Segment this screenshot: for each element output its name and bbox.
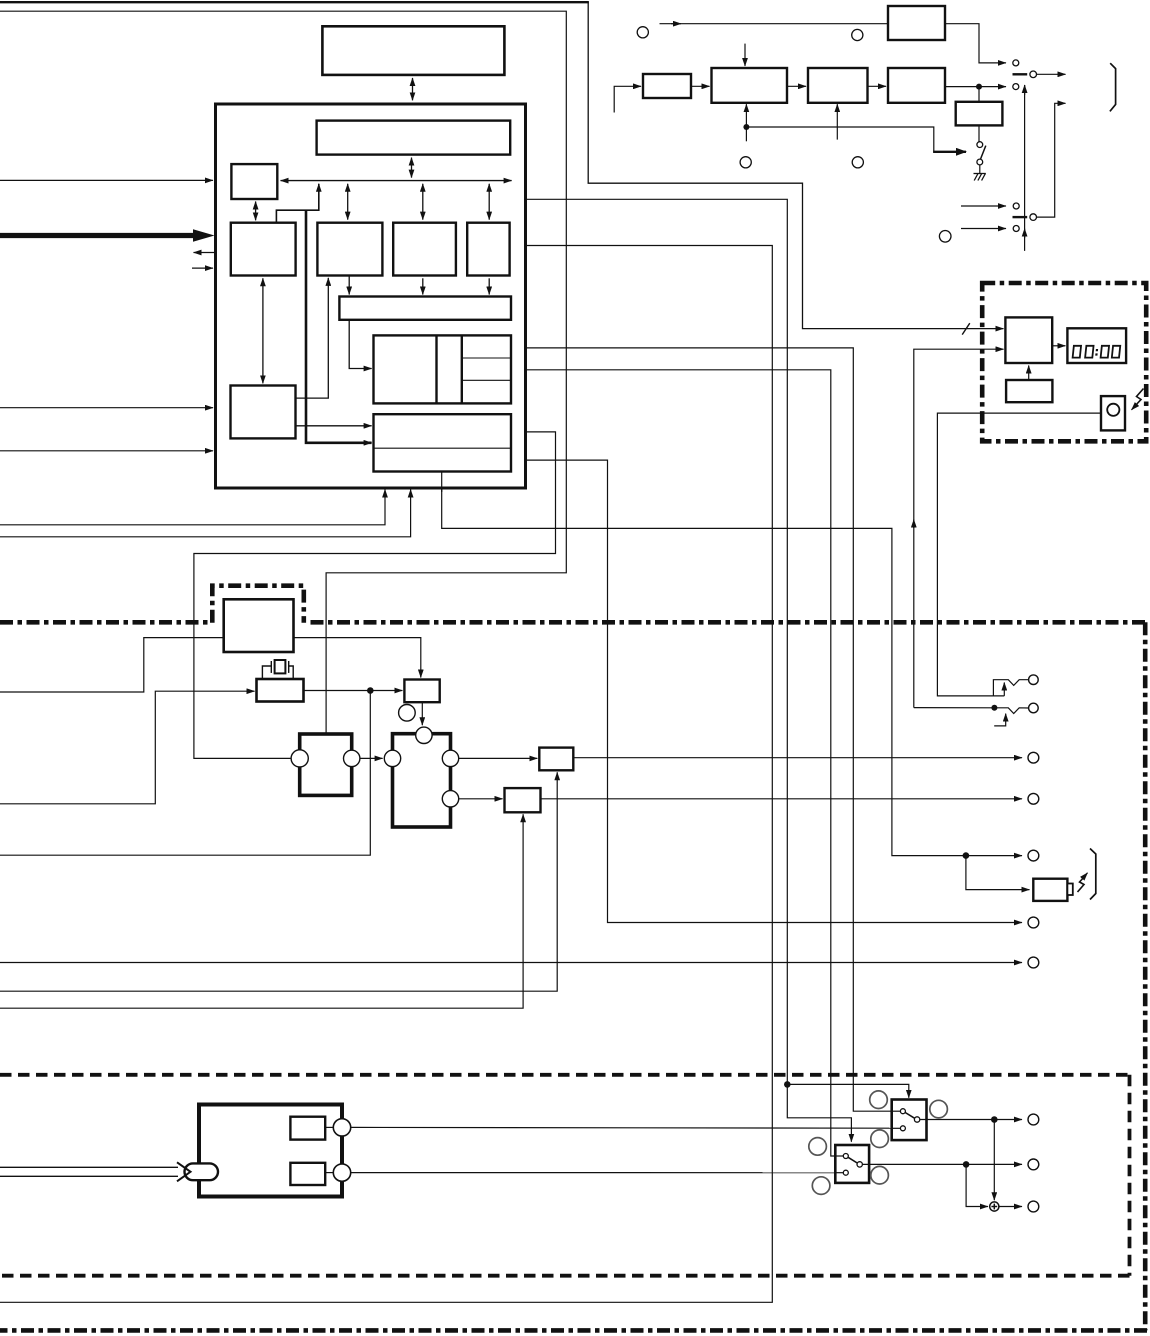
switch contact circle	[1013, 60, 1019, 66]
brace at sensor group	[1090, 849, 1096, 900]
brace output group	[1110, 63, 1116, 111]
callout circle gray	[812, 1177, 830, 1195]
remote sensor box	[1033, 879, 1067, 901]
callout circle	[637, 27, 648, 38]
ground symbol	[974, 174, 986, 181]
internal data bus with arrows	[281, 180, 512, 182]
wire: branch to lower power switch	[787, 1084, 851, 1141]
wire: oscillator output to PLL box	[304, 690, 403, 692]
internal box L	[231, 223, 296, 276]
wire: stub to upper switch contact 1	[892, 1110, 901, 1112]
AC inlet capsule	[185, 1163, 219, 1180]
crystal symbol	[262, 660, 293, 679]
internal box K	[231, 164, 277, 199]
wire: stub to lower switch contact 2	[835, 1172, 843, 1174]
arrowhead: mid-line arrow on R0 input	[671, 23, 681, 25]
junction on upper switch output	[991, 1116, 998, 1123]
wire: thick arrow into main power switch	[933, 151, 966, 153]
wire: box F output to pin	[541, 798, 1023, 800]
pin circle: output 962	[1028, 957, 1039, 968]
upper power switch box	[892, 1100, 927, 1141]
wire: IC out 6 to output pin row	[527, 460, 1023, 922]
arrowhead: upper jack break contact	[1003, 683, 1005, 696]
wire: winding 2 stub	[325, 1172, 334, 1174]
wire: IC out 5 to demodulator input circle	[194, 432, 556, 759]
wire: bottom feed up into box E	[0, 772, 557, 991]
internal box N	[393, 223, 456, 276]
wire: junction down to power box R5	[978, 87, 980, 101]
lower switch contact 2	[843, 1170, 848, 1175]
wire: stub arrow to contact row4	[961, 228, 1006, 230]
callout circle gray	[870, 1091, 888, 1109]
timer unit dash-dot box	[982, 283, 1146, 441]
switch wiper bar lower	[1013, 216, 1028, 218]
wire: switch to ground	[979, 165, 981, 174]
wire: lower switch output to pin	[862, 1163, 1022, 1165]
wire: demodulator to control block arrow	[360, 757, 383, 759]
wire: winding 1 stub	[325, 1126, 334, 1128]
wire: IF line from top to demodulator block	[0, 11, 566, 732]
circle on box C right edge lower	[442, 791, 458, 807]
wire: box N down to W2	[422, 278, 424, 294]
wire: buzzer line down to jack contact	[937, 413, 1101, 696]
wire: R4 output to contact	[945, 86, 1006, 88]
wire: control block to box F	[459, 798, 503, 800]
radio box R4	[888, 68, 945, 103]
radio box R1	[643, 74, 691, 98]
junction on oscillator output	[367, 687, 374, 694]
internal box M	[317, 223, 382, 276]
pin circle: output 922	[1028, 917, 1039, 928]
arrowhead: selector line middle	[1024, 229, 1026, 238]
wire: box E output to pin	[573, 757, 1022, 759]
wire: lower jack break contact stub	[994, 714, 1006, 726]
box F	[505, 788, 541, 812]
bidirectional arrow bus to M	[347, 184, 349, 220]
wire: upper jack tip contact	[993, 680, 1028, 696]
box E	[539, 748, 573, 771]
callout circle gray	[871, 1166, 889, 1184]
wire: branch down to left edge	[0, 691, 370, 856]
internal box O	[467, 223, 509, 276]
switch contact circle	[1013, 226, 1019, 232]
wire: up arrow into R3 bottom	[836, 104, 838, 139]
wire: box S up to box M	[296, 278, 329, 398]
pin circle: output 856	[1028, 850, 1039, 861]
wire: input arrow to IC (upper)	[0, 179, 213, 181]
wire: left input arrow to oscillator box	[0, 691, 255, 804]
pin circle: summed output	[1028, 1201, 1039, 1212]
upper switch lever	[905, 1113, 914, 1119]
wire: upper switch output to pin	[920, 1119, 1022, 1121]
wire: left input to PLL box B	[0, 638, 421, 692]
wire: IC out 1 to headphone jack switch	[527, 199, 788, 1084]
secondary winding box 1	[290, 1117, 325, 1140]
internal box T	[374, 335, 512, 403]
power transformer thick box	[199, 1105, 342, 1197]
lower power switch box	[835, 1145, 869, 1183]
wire: output arrow from IC pointing left	[194, 252, 215, 254]
internal register box S2	[374, 414, 512, 471]
bidirectional arrow bus to O	[488, 184, 490, 220]
callout circle gray	[871, 1130, 889, 1148]
lower switch common	[857, 1162, 862, 1167]
wire: top bus line to timer	[0, 2, 1004, 328]
alarm box circle	[1107, 404, 1119, 416]
pin circle: switched output 1	[1028, 1114, 1039, 1125]
bidirectional arrow bus to N	[422, 184, 424, 220]
wire: R2 to R3	[787, 85, 806, 87]
wire: control block to box E	[459, 757, 537, 759]
tuner block box	[224, 599, 294, 652]
circle on box C right edge upper	[442, 750, 458, 766]
internal wide box W2	[339, 297, 511, 320]
wire: top horizontal line thick overlay	[0, 1, 589, 3]
wire: thick data input arrow to IC	[0, 233, 194, 238]
tuner unit dash-dot box	[212, 586, 303, 623]
AC input chevron arrowhead	[177, 1162, 191, 1181]
switch wiper circle upper	[1030, 71, 1037, 78]
remote flash arrow at timer	[1134, 389, 1144, 408]
bidirectional arrow K to L	[255, 202, 257, 221]
wire: lower box up to clock	[1028, 366, 1030, 381]
arrowhead: selector line top	[1024, 85, 1026, 95]
wire: input arrow to IC (middle)	[0, 407, 213, 409]
junction on jack switch line	[784, 1081, 791, 1088]
remote flash arrow at sensor	[1078, 875, 1087, 892]
wire: PLL box down to control block	[421, 702, 423, 725]
system control thick box C	[393, 734, 451, 827]
power switch lever	[980, 146, 986, 160]
wire: box S to register block S2	[296, 425, 372, 427]
remote sensor tab	[1067, 884, 1072, 896]
wire: box M down to W2	[348, 276, 350, 295]
radio box R3	[808, 68, 868, 103]
wire: clock to display arrow	[1052, 345, 1065, 347]
wire: stub arrow to contact row3	[961, 205, 1006, 207]
callout circle	[939, 231, 951, 243]
wire: down arrow into R2 top	[744, 44, 746, 66]
upper switch contact 1	[900, 1109, 905, 1114]
wire: line into R0 with arrow	[660, 23, 889, 25]
switch contact circle	[1013, 203, 1019, 209]
arrowhead: thick data input	[193, 229, 215, 241]
demodulator thick box D	[300, 734, 352, 795]
switch wiper bar upper	[1013, 73, 1028, 75]
arrowhead: timer flash	[1132, 404, 1138, 410]
callout circle gray	[809, 1138, 827, 1156]
callout circle	[740, 157, 751, 168]
wire: lower jack line	[914, 708, 1029, 714]
wire: lower wiper output up and right arrow	[1037, 103, 1066, 217]
timer clock IC box	[1005, 317, 1052, 363]
pin circle: output 758	[1028, 752, 1039, 763]
radio box R2	[712, 68, 788, 103]
jack pin circle upper	[1029, 675, 1039, 685]
timer alarm output box	[1101, 396, 1125, 430]
circle on box C left edge	[384, 750, 400, 766]
external memory box	[322, 26, 504, 75]
wire: bottom input to IC 1	[0, 490, 385, 525]
internal box S	[231, 386, 296, 439]
pin circle: switched output 2	[1028, 1159, 1039, 1170]
wire: R0 output to switch contact	[945, 24, 1006, 63]
circle on box D right edge	[344, 750, 360, 766]
switch contact circle	[1013, 84, 1019, 90]
power supply dashed box	[0, 1075, 1130, 1276]
power switch top contact	[977, 142, 983, 148]
wire: bottom input to IC 2	[0, 490, 411, 537]
wire: R1 to R2	[691, 85, 710, 87]
main unit dash-dot boundary	[0, 622, 1147, 1330]
bidirectional arrow L to S	[262, 278, 264, 383]
callout circle	[852, 29, 863, 40]
power switch bottom contact	[977, 159, 983, 165]
display digits 00:00	[1073, 346, 1121, 358]
secondary winding box 2	[290, 1163, 325, 1185]
main IC block U1	[216, 104, 526, 488]
wire: stub to upper switch contact 2	[892, 1127, 901, 1129]
junction on R2 bottom feed	[743, 124, 749, 130]
AC input double line	[0, 1167, 178, 1176]
wire: jog from box L up to bus	[276, 184, 318, 223]
wire: power line 2 to lower switch	[351, 1172, 843, 1174]
timer display box	[1067, 328, 1126, 363]
wire: branch to summing point left	[966, 1164, 988, 1206]
oscillator box X1	[257, 679, 304, 702]
slash bus-width tick on timer line	[962, 323, 970, 334]
junction on R4 output	[976, 84, 982, 90]
radio box R0 top	[888, 6, 945, 40]
wire: upper wiper output arrow	[1037, 73, 1066, 75]
wire: register S2 bottom lead	[441, 472, 443, 493]
arrowhead: sensor flash	[1082, 873, 1088, 879]
box T divider 1	[435, 335, 437, 403]
bidirectional arrow W1 to bus	[411, 158, 413, 178]
wire: radio chain input stub	[614, 86, 641, 112]
upper switch common	[914, 1117, 919, 1122]
circle on box C top edge	[416, 727, 432, 743]
timer lower box	[1006, 380, 1052, 402]
wire: stub to lower switch contact 1	[835, 1155, 843, 1157]
callout circle	[852, 157, 863, 168]
wire: up arrow into R2 bottom with branch to power switch	[745, 104, 747, 141]
box T row line 2	[462, 379, 511, 381]
wire: R5 down to power switch	[978, 125, 980, 141]
wire: power line 1 to upper switch	[351, 1126, 901, 1129]
wire: input arrow to IC (lower)	[0, 450, 213, 452]
switch wiper circle lower	[1030, 214, 1037, 221]
terminal circle on transformer edge 2	[333, 1164, 350, 1181]
wire: bottom feed up into box F	[0, 814, 523, 1008]
upper switch contact 2	[900, 1126, 905, 1131]
lower switch contact 1	[843, 1154, 848, 1159]
lower switch lever	[848, 1157, 857, 1163]
box T row line 1	[462, 357, 511, 359]
pin circle: output 799	[1028, 793, 1039, 804]
junction on lower jack line	[991, 705, 997, 711]
wire: branch to remote sensor box	[966, 856, 1030, 890]
circle on box D left edge	[291, 750, 308, 767]
wire: short input arrow to IC	[192, 267, 213, 269]
wire: timer second input with up arrow	[914, 349, 1004, 707]
jack pin circle lower	[1029, 703, 1039, 713]
display colon	[1095, 349, 1098, 356]
wire: branch down to summing point	[993, 1120, 995, 1201]
box T divider 2	[461, 335, 463, 403]
summing point circled plus	[990, 1202, 999, 1211]
wire: IC out 3 to upper switch contact	[527, 348, 900, 1111]
callout circle gray	[930, 1100, 948, 1118]
callout circle below box B	[399, 705, 416, 722]
internal wide box W1	[317, 121, 511, 155]
wire: thick vertical from jog to register arrow	[306, 210, 372, 443]
wire: summing point to pin	[999, 1206, 1022, 1208]
power box R5	[956, 102, 1003, 126]
PLL box B	[404, 680, 439, 703]
wire: register block output to remote line	[442, 472, 1022, 856]
wire: R3 to R4	[868, 85, 887, 87]
wire: long line to output pin 962	[0, 962, 1022, 964]
arrowhead: mid-line up arrow on timer line	[913, 520, 915, 529]
wire: IC out 2 down to bottom-left output	[0, 246, 772, 1303]
junction on remote line	[963, 852, 970, 859]
junction on lower switch output	[963, 1161, 970, 1168]
bidirectional arrow memory to IC	[412, 78, 414, 100]
terminal circle on transformer edge 1	[333, 1119, 350, 1136]
wire: W2 down to box T	[349, 320, 371, 369]
wire: vertical selector line with up arrows	[1024, 85, 1026, 251]
wire: branch toward main power switch	[746, 127, 933, 152]
box S2 divider	[374, 447, 512, 449]
wire: box O down to W2	[488, 278, 490, 294]
wire: branch to upper power switch	[787, 1084, 909, 1097]
wire: IC out 4 to lower switch contact	[527, 370, 843, 1156]
